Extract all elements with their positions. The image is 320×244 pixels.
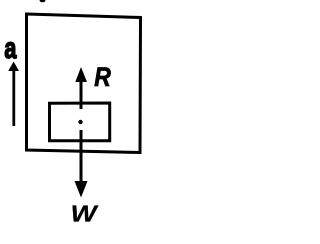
- svg-text:W: W: [71, 202, 99, 227]
- svg-text:R: R: [94, 62, 111, 92]
- svg-text:a: a: [4, 30, 16, 64]
